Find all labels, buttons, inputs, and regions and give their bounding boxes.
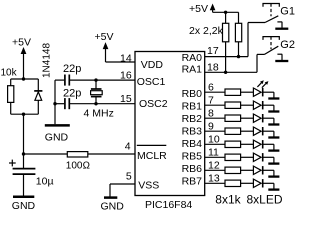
junction dot rail (224, 11, 227, 14)
svg-text:12: 12 (208, 159, 220, 171)
wire RA0 pin17 (205, 56, 248, 58)
diode D1 1N4148 (34, 79, 42, 114)
wire oscillator ground vertical (54, 80, 56, 124)
wire MCLR to 100ohm (24, 153, 68, 155)
wire RA0 up to G1 (247, 23, 249, 57)
wire VSS pin5 to ground (110, 184, 135, 197)
svg-text:VDD: VDD (141, 59, 164, 71)
power +5V arrow (middle) (103, 42, 109, 62)
wire +5V rail to pullups (213, 11, 239, 13)
ground bar LED7 (268, 175, 279, 177)
svg-text:22p: 22p (63, 87, 81, 99)
svg-text:OSC1: OSC1 (137, 76, 166, 88)
junction dot OSC2 (94, 102, 97, 105)
row RB1 pin7 (205, 94, 254, 108)
svg-text:+5V: +5V (95, 31, 114, 43)
switch G1 actuator bracket (263, 4, 279, 7)
wire MCLR vertical (23, 114, 25, 154)
wire top of R-divider (11, 78, 39, 80)
svg-text:1N4148: 1N4148 (41, 43, 52, 78)
junction dot RA1 pullup (224, 71, 227, 74)
svg-text:7: 7 (208, 94, 214, 106)
wire VDD to pin14 (106, 61, 136, 63)
switch G2 lever (257, 46, 278, 54)
switch G2 actuator stem (dashed) (270, 37, 272, 50)
svg-text:10: 10 (208, 133, 220, 145)
LED D9 (253, 179, 274, 189)
ground bar LED2 (268, 110, 279, 112)
LED D5 (253, 127, 274, 137)
svg-text:+5V: +5V (12, 36, 31, 48)
svg-text:MCLR: MCLR (137, 150, 167, 162)
svg-text:RB0: RB0 (182, 88, 203, 100)
power +5V arrow (right) (210, 4, 216, 13)
junction dot below divider (22, 113, 25, 116)
LED D2 (253, 88, 274, 98)
switch G1 fixed contact (277, 22, 282, 28)
svg-text:RB1: RB1 (182, 100, 203, 112)
svg-text:RA1: RA1 (182, 64, 203, 76)
ground bar LED8 (268, 188, 279, 190)
ground bar VSS (104, 196, 117, 199)
svg-text:2x 2,2k: 2x 2,2k (189, 25, 224, 37)
LED D6 (253, 140, 274, 150)
row RB4 pin10 (205, 133, 254, 147)
svg-text:11: 11 (208, 146, 219, 158)
svg-text:8: 8 (208, 107, 214, 119)
svg-text:13: 13 (208, 172, 220, 184)
svg-text:5: 5 (126, 171, 132, 183)
junction dot OSC1 (94, 78, 97, 81)
capacitor C1 22p (55, 75, 96, 86)
ground bar LED6 (268, 162, 279, 164)
ground bar bottom-left (13, 196, 34, 199)
node A junction dot top-left (22, 77, 25, 80)
row RB7 pin13 (205, 172, 254, 186)
row RB2 pin8 (205, 107, 254, 121)
ground bar LED4 (268, 136, 279, 138)
svg-text:4: 4 (125, 140, 131, 152)
svg-text:15: 15 (120, 93, 132, 105)
svg-text:GND: GND (12, 200, 36, 212)
junction dot osc gnd (53, 102, 56, 105)
svg-text:8x1k: 8x1k (215, 192, 241, 206)
svg-text:14: 14 (120, 52, 132, 64)
capacitor C3 plus sign (9, 160, 16, 167)
ground bar LED1 (268, 97, 279, 99)
svg-text:RB3: RB3 (182, 125, 203, 137)
row RB5 pin11 (205, 146, 254, 160)
svg-text:+5V: +5V (189, 3, 208, 15)
ground bar oscillator (45, 124, 70, 127)
svg-text:RB6: RB6 (182, 163, 203, 175)
svg-text:PIC16F84: PIC16F84 (145, 199, 192, 211)
svg-text:RA0: RA0 (182, 52, 203, 64)
svg-text:22p: 22p (63, 63, 81, 75)
ground bar LED3 (268, 123, 279, 125)
svg-text:10k: 10k (1, 67, 18, 78)
resistor 10k (8, 79, 14, 114)
capacitor C3 10u electrolytic (13, 154, 36, 196)
crystal Q1 4MHz (91, 80, 103, 104)
capacitor C2 22p (55, 98, 96, 109)
svg-text:RB4: RB4 (182, 138, 203, 150)
LED D3 (253, 101, 274, 111)
ground bar G2 (275, 60, 288, 62)
switch G2 actuator bracket (263, 37, 279, 40)
label MCLR with overline (137, 145, 167, 161)
LED emission arrows (257, 80, 268, 87)
svg-text:17: 17 (207, 45, 219, 57)
junction dot MCLR node (22, 152, 25, 155)
wire OSC2 to pin15 (96, 103, 135, 105)
svg-text:RB5: RB5 (182, 150, 203, 162)
switch G1 lever (248, 16, 278, 23)
LED D7 (253, 153, 274, 163)
wire RA1 pin18 (205, 71, 257, 73)
wire 100ohm to pin4 (88, 153, 135, 155)
svg-text:6: 6 (208, 81, 214, 93)
svg-text:10µ: 10µ (36, 175, 54, 187)
power +5V arrow (left) (21, 47, 27, 79)
svg-text:GND: GND (101, 201, 125, 213)
svg-text:9: 9 (208, 120, 214, 132)
svg-text:VSS: VSS (138, 180, 159, 192)
svg-text:G2: G2 (280, 39, 295, 51)
svg-text:GND: GND (45, 131, 69, 143)
resistor 2.2k right (235, 12, 241, 56)
wire RA1 up to G2 (256, 54, 258, 72)
switch G2 fixed contact (277, 54, 282, 60)
svg-text:4 MHz: 4 MHz (84, 107, 114, 119)
wire OSC1 to pin16 (96, 79, 135, 81)
op-amp U1 PIC16F84 body (135, 52, 205, 196)
svg-text:16: 16 (120, 69, 132, 81)
row RB6 pin12 (205, 159, 254, 173)
svg-text:G1: G1 (280, 5, 295, 17)
svg-text:8xLED: 8xLED (247, 192, 283, 206)
resistor 100ohm (67, 152, 88, 157)
row RB0 pin6 (205, 81, 254, 95)
wire bottom of R-divider (11, 113, 39, 115)
resistor 2.2k left (223, 12, 229, 72)
ground bar G1 (275, 28, 288, 30)
ground bar LED5 (268, 149, 279, 151)
LED D8 (253, 166, 274, 176)
row RB3 pin9 (205, 120, 254, 134)
LED D4 (253, 114, 274, 124)
svg-text:RB7: RB7 (182, 175, 203, 187)
svg-text:OSC2: OSC2 (139, 98, 168, 110)
svg-text:100Ω: 100Ω (66, 161, 90, 172)
junction dot RA0 pullup (237, 55, 240, 58)
switch G1 actuator stem (dashed) (270, 4, 272, 17)
svg-text:RB2: RB2 (182, 113, 203, 125)
